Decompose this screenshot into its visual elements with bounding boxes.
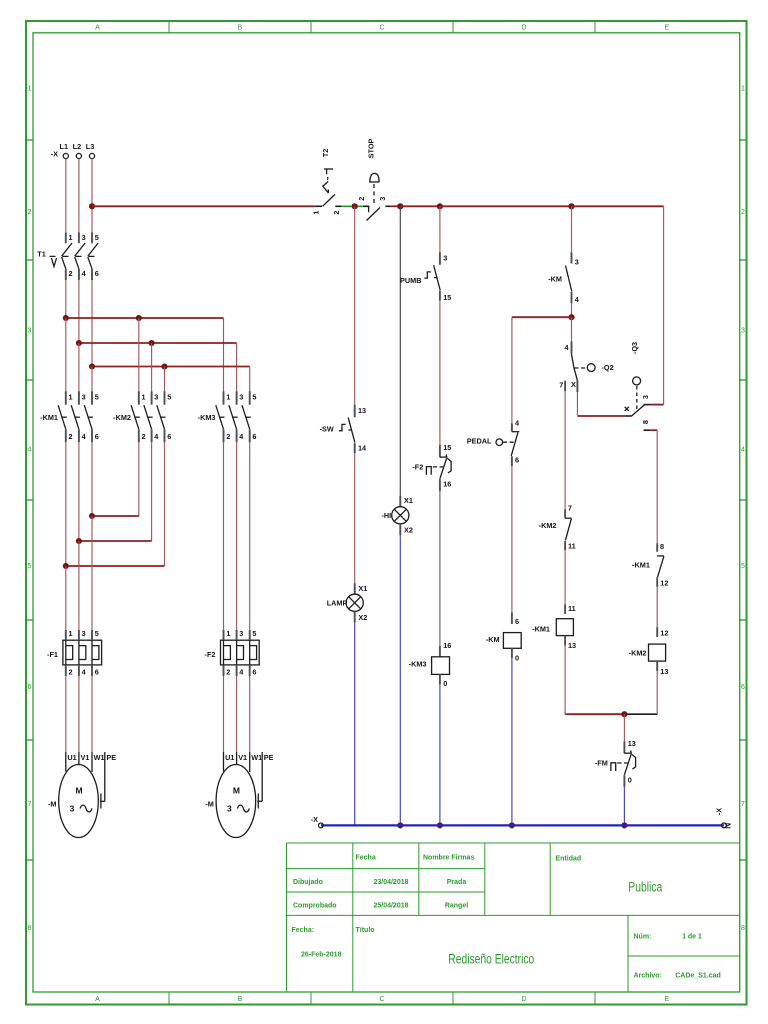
svg-text:1 de 1: 1 de 1 xyxy=(682,934,702,941)
circuit breaker T1 xyxy=(37,233,99,281)
svg-text:4: 4 xyxy=(239,667,244,676)
wire junction C to D xyxy=(440,205,572,207)
wire KM2 out 2 xyxy=(151,442,153,541)
svg-text:3: 3 xyxy=(575,257,579,266)
svg-text:3: 3 xyxy=(82,629,86,638)
node -FM neutral tap xyxy=(621,822,627,828)
svg-text:5: 5 xyxy=(95,629,99,638)
svg-text:2: 2 xyxy=(69,432,73,441)
wire T1 to bus L3 xyxy=(91,280,93,367)
wire to F1 xyxy=(65,566,67,630)
wire neutral bus xyxy=(321,824,724,826)
svg-text:-M: -M xyxy=(205,800,214,809)
wire -SW to LAMP xyxy=(354,453,356,583)
svg-text:2: 2 xyxy=(357,197,366,201)
svg-text:PEDAL: PEDAL xyxy=(467,436,492,445)
svg-text:13: 13 xyxy=(628,739,636,748)
svg-text:E: E xyxy=(665,996,670,1003)
wire KM1 pole feeds xyxy=(65,318,67,391)
svg-text:0: 0 xyxy=(515,653,519,662)
svg-text:5: 5 xyxy=(95,392,99,401)
svg-text:X2: X2 xyxy=(404,526,413,535)
pedal switch PEDAL xyxy=(467,418,520,466)
svg-text:Archivo:: Archivo: xyxy=(634,973,662,980)
wire -KM3 coil to neutral xyxy=(439,685,441,826)
contactor -KM1 main contacts xyxy=(40,391,99,442)
wire LAMP to neutral xyxy=(354,623,356,826)
svg-text:0: 0 xyxy=(443,679,447,688)
node -KM neutral tap xyxy=(509,822,515,828)
wire junction E down to -Q2 xyxy=(571,317,573,341)
pushbutton STOP xyxy=(357,139,390,221)
selector switch -Q3 xyxy=(625,342,651,430)
svg-text:7: 7 xyxy=(559,381,563,390)
svg-text:-M: -M xyxy=(48,800,57,809)
svg-text:14: 14 xyxy=(358,444,367,453)
svg-text:D: D xyxy=(521,25,526,32)
switch T2 xyxy=(312,149,342,215)
svg-text:6: 6 xyxy=(515,456,519,465)
wire bus phase2 xyxy=(79,342,237,344)
svg-text:12: 12 xyxy=(660,579,668,588)
svg-text:Núm:: Núm: xyxy=(634,934,652,941)
svg-text:U1: U1 xyxy=(67,753,76,762)
wire -FM to neutral xyxy=(623,787,625,825)
svg-text:3: 3 xyxy=(82,233,86,242)
svg-text:PE: PE xyxy=(106,753,116,762)
node bus1 taps xyxy=(63,315,69,321)
svg-text:11: 11 xyxy=(568,542,576,551)
node L3 junction xyxy=(89,203,95,209)
svg-text:7: 7 xyxy=(568,503,572,512)
overload relay -F1 xyxy=(47,629,102,677)
wire KM2 out 1 xyxy=(138,442,140,516)
svg-text:Rediseño Electrico: Rediseño Electrico xyxy=(448,952,534,967)
wire KM3 to F2 xyxy=(223,442,225,630)
svg-text:X1: X1 xyxy=(358,584,367,593)
svg-text:15: 15 xyxy=(443,443,451,452)
svg-text:L2: L2 xyxy=(73,142,82,151)
node -HI neutral tap xyxy=(397,822,403,828)
wire join to -FM xyxy=(623,714,625,741)
node -KM3 neutral tap xyxy=(437,822,443,828)
svg-text:4: 4 xyxy=(564,343,569,352)
svg-text:4: 4 xyxy=(154,432,159,441)
svg-text:Nombre Firmas: Nombre Firmas xyxy=(423,855,474,862)
svg-text:B: B xyxy=(238,25,243,32)
contactor -KM2 main contacts xyxy=(113,391,171,442)
node jumper c xyxy=(63,563,69,569)
svg-text:-KM2: -KM2 xyxy=(539,521,557,530)
wire jumper KM2-KM1 c xyxy=(66,565,165,567)
overload contact -F2 xyxy=(412,443,451,491)
svg-text:5: 5 xyxy=(741,563,745,570)
svg-text:2: 2 xyxy=(28,209,32,216)
svg-text:X: X xyxy=(571,380,576,389)
wire -Q3 pin3 to riser xyxy=(651,404,664,406)
svg-text:1: 1 xyxy=(226,629,230,638)
svg-text:V1: V1 xyxy=(81,753,90,762)
svg-text:5: 5 xyxy=(167,392,171,401)
svg-text:1: 1 xyxy=(69,629,73,638)
switch -SW xyxy=(320,405,367,454)
svg-text:X1: X1 xyxy=(404,496,413,505)
svg-text:A: A xyxy=(95,25,100,32)
svg-text:6: 6 xyxy=(167,432,171,441)
svg-text:Rangel: Rangel xyxy=(445,903,468,910)
svg-text:1: 1 xyxy=(28,86,32,93)
wire coil join left xyxy=(565,713,624,715)
svg-text:4: 4 xyxy=(741,447,745,454)
svg-text:-Q2: -Q2 xyxy=(602,363,614,372)
svg-text:3: 3 xyxy=(82,392,86,401)
wire F1 to motor1 xyxy=(65,676,67,752)
svg-text:Entidad: Entidad xyxy=(556,856,582,863)
svg-text:13: 13 xyxy=(660,667,668,676)
svg-text:C: C xyxy=(379,996,384,1003)
svg-text:3: 3 xyxy=(70,804,75,814)
svg-text:2: 2 xyxy=(69,667,73,676)
svg-text:Fecha:: Fecha: xyxy=(292,927,315,934)
lamp -HI xyxy=(381,496,412,535)
svg-text:4: 4 xyxy=(28,447,32,454)
wire L1 down xyxy=(65,159,67,233)
svg-text:6: 6 xyxy=(252,667,256,676)
svg-text:1: 1 xyxy=(69,233,73,242)
svg-text:3: 3 xyxy=(154,392,158,401)
svg-text:B: B xyxy=(238,996,243,1003)
svg-text:-FM: -FM xyxy=(595,759,608,768)
svg-text:3: 3 xyxy=(28,328,32,335)
svg-text:5: 5 xyxy=(28,563,32,570)
svg-text:3: 3 xyxy=(443,254,447,263)
wire main control feed xyxy=(92,205,315,207)
wire jumper KM2-KM1 a xyxy=(92,515,139,517)
svg-text:Título: Título xyxy=(356,927,375,934)
svg-text:L3: L3 xyxy=(86,142,95,151)
svg-text:2: 2 xyxy=(332,211,341,215)
wire junction B to C xyxy=(400,205,440,207)
wire junction D to right corner xyxy=(572,205,664,207)
node junction E xyxy=(568,314,574,320)
node junction C xyxy=(437,203,443,209)
svg-text:2: 2 xyxy=(741,209,745,216)
svg-text:A: A xyxy=(95,996,100,1003)
wire T1 to bus L2 xyxy=(78,280,80,343)
svg-text:-KM2: -KM2 xyxy=(113,413,131,422)
wire bus phase1 xyxy=(66,317,224,319)
wire bus phase1 drop to KM3 xyxy=(223,318,225,391)
svg-text:N: N xyxy=(723,823,733,829)
node bus2 taps xyxy=(76,340,82,346)
wire jumper KM2-KM1 b xyxy=(79,540,152,542)
svg-text:2: 2 xyxy=(69,269,73,278)
svg-text:-X: -X xyxy=(311,815,318,824)
svg-text:U1: U1 xyxy=(225,753,234,762)
svg-text:4: 4 xyxy=(82,667,87,676)
svg-text:-KM1: -KM1 xyxy=(632,561,650,570)
motor -M 1 xyxy=(48,752,116,838)
svg-text:-KM2: -KM2 xyxy=(629,648,647,657)
node jumper b xyxy=(76,538,82,544)
svg-text:1: 1 xyxy=(312,211,321,215)
svg-text:3: 3 xyxy=(641,395,650,399)
node jumper a xyxy=(89,513,95,519)
svg-text:-KM1: -KM1 xyxy=(40,413,58,422)
svg-text:2: 2 xyxy=(142,432,146,441)
svg-text:6: 6 xyxy=(252,432,256,441)
svg-text:3: 3 xyxy=(239,629,243,638)
svg-text:X2: X2 xyxy=(358,613,367,622)
wire -KM to junction E xyxy=(571,303,573,317)
svg-text:1: 1 xyxy=(226,392,230,401)
svg-text:6: 6 xyxy=(95,667,99,676)
svg-text:M: M xyxy=(233,786,240,796)
svg-text:8: 8 xyxy=(660,542,664,551)
svg-text:C: C xyxy=(379,25,384,32)
wire L2 down xyxy=(78,159,80,233)
svg-text:L1: L1 xyxy=(60,142,69,151)
svg-text:1: 1 xyxy=(142,392,146,401)
wire bus phase3 xyxy=(92,366,250,368)
svg-text:-F1: -F1 xyxy=(47,650,58,659)
svg-text:D: D xyxy=(521,996,526,1003)
svg-text:V1: V1 xyxy=(238,753,247,762)
svg-text:W1: W1 xyxy=(251,753,262,762)
svg-text:8: 8 xyxy=(28,925,32,932)
coil -KM xyxy=(486,613,521,663)
svg-text:13: 13 xyxy=(568,641,576,650)
svg-text:4: 4 xyxy=(239,432,244,441)
coil -KM2 xyxy=(629,627,669,676)
wire junction D down xyxy=(571,206,573,252)
svg-text:6: 6 xyxy=(515,617,519,626)
svg-text:3: 3 xyxy=(227,804,232,814)
svg-text:-KM1: -KM1 xyxy=(532,625,550,634)
title block xyxy=(287,843,740,992)
overload contact -FM xyxy=(595,739,636,787)
wire pin X to -Q3 xyxy=(576,392,578,415)
wire KM1 out 1 xyxy=(65,442,67,566)
svg-text:7: 7 xyxy=(28,801,32,808)
svg-text:12: 12 xyxy=(660,629,668,638)
svg-text:2: 2 xyxy=(226,432,230,441)
svg-text:8: 8 xyxy=(741,925,745,932)
node junction B xyxy=(397,203,403,209)
svg-text:4: 4 xyxy=(575,295,580,304)
contact -KM xyxy=(548,253,579,305)
svg-text:T1: T1 xyxy=(37,250,46,259)
wire -KM2 aux to -KM1 coil xyxy=(564,550,566,605)
svg-text:-KM: -KM xyxy=(486,635,500,644)
wire KM1 out 2 xyxy=(78,442,80,541)
svg-text:5: 5 xyxy=(252,629,256,638)
node coil join xyxy=(621,711,627,717)
svg-text:Dibujado: Dibujado xyxy=(293,879,323,886)
svg-text:3: 3 xyxy=(741,328,745,335)
svg-text:13: 13 xyxy=(358,406,366,415)
node junction D xyxy=(568,203,574,209)
svg-text:-KM: -KM xyxy=(548,275,562,284)
svg-text:-SW: -SW xyxy=(320,424,334,433)
wire KM1 out 3 xyxy=(91,442,93,516)
wire -KM1 coil down xyxy=(564,646,566,715)
wire STOP to junction B xyxy=(390,205,400,207)
svg-text:CADe_S1.cad: CADe_S1.cad xyxy=(675,973,721,980)
svg-text:-F2: -F2 xyxy=(412,463,423,472)
wire F2 to motor2 xyxy=(223,676,225,752)
svg-text:11: 11 xyxy=(568,604,576,613)
wire PUMB to -F2 contact xyxy=(439,301,441,445)
aux contact -KM2 xyxy=(539,503,576,550)
svg-text:7: 7 xyxy=(741,801,745,808)
svg-text:PUMB: PUMB xyxy=(400,276,422,285)
wire junction E to PEDAL branch xyxy=(512,316,572,318)
wire T1 to bus L1 xyxy=(65,280,67,318)
wire coil join right black xyxy=(624,713,657,715)
svg-text:-F2: -F2 xyxy=(205,650,216,659)
overload relay -F2 xyxy=(205,629,260,677)
svg-text:-KM3: -KM3 xyxy=(198,413,216,422)
svg-text:-X: -X xyxy=(51,150,58,159)
svg-text:Publica: Publica xyxy=(628,880,662,895)
svg-text:4: 4 xyxy=(82,432,87,441)
svg-text:T2: T2 xyxy=(321,149,330,158)
svg-text:5: 5 xyxy=(95,233,99,242)
svg-text:PE: PE xyxy=(264,753,274,762)
svg-text:5: 5 xyxy=(252,392,256,401)
node control junction A xyxy=(352,203,358,209)
wire bus phase2 drop to KM3 xyxy=(236,343,238,391)
wire T2 to STOP green net xyxy=(342,205,363,207)
svg-text:E: E xyxy=(665,25,670,32)
wire -KM2 coil down xyxy=(656,671,658,714)
svg-text:4: 4 xyxy=(515,418,520,427)
wire KM2 out 3 xyxy=(164,442,166,566)
svg-text:26-Feb-2018: 26-Feb-2018 xyxy=(301,952,342,959)
svg-text:23/04/2018: 23/04/2018 xyxy=(373,879,408,886)
svg-text:6: 6 xyxy=(95,432,99,441)
svg-text:M: M xyxy=(75,786,82,796)
svg-text:-X: -X xyxy=(714,808,723,815)
svg-text:6: 6 xyxy=(95,269,99,278)
wire junction B down to -HI xyxy=(399,206,401,495)
coil -KM3 xyxy=(409,641,452,688)
svg-text:3: 3 xyxy=(239,392,243,401)
contactor -KM3 main contacts xyxy=(198,391,257,442)
wire -KM coil to neutral xyxy=(511,658,513,825)
svg-text:6: 6 xyxy=(741,684,745,691)
wire PEDAL riser xyxy=(511,317,513,423)
svg-text:16: 16 xyxy=(443,479,451,488)
svg-text:Comprobado: Comprobado xyxy=(293,903,337,910)
svg-text:Fecha: Fecha xyxy=(356,855,376,862)
wire -KM1 aux to -KM2 coil xyxy=(656,587,658,628)
svg-text:STOP: STOP xyxy=(367,139,376,159)
svg-text:8: 8 xyxy=(641,420,650,424)
wire -F2 to -KM3 coil gray net xyxy=(439,491,441,646)
coil -KM1 xyxy=(532,604,576,650)
wire PEDAL to -KM coil xyxy=(511,466,513,612)
svg-text:16: 16 xyxy=(443,641,451,650)
wire -HI to neutral xyxy=(399,535,401,825)
switch PUMB xyxy=(400,252,451,302)
wire right riser xyxy=(663,206,665,404)
wire L3 down xyxy=(91,159,93,233)
svg-text:-HI: -HI xyxy=(381,511,391,520)
contact -Q2 xyxy=(559,342,613,393)
svg-text:W1: W1 xyxy=(94,753,105,762)
svg-text:1: 1 xyxy=(741,86,745,93)
wire KM2 pole feeds xyxy=(138,318,140,391)
svg-text:25/04/2018: 25/04/2018 xyxy=(373,903,408,910)
aux contact -KM1 xyxy=(632,542,668,588)
svg-text:-KM3: -KM3 xyxy=(409,659,427,668)
wire junction A down to -SW xyxy=(354,206,356,404)
svg-text:4: 4 xyxy=(82,269,87,278)
wire junction C down to PUMB xyxy=(439,206,441,252)
svg-text:LAMP: LAMP xyxy=(327,598,348,607)
svg-text:1: 1 xyxy=(69,392,73,401)
wire pin7 down to -KM2 aux xyxy=(564,391,566,509)
wire bus phase3 drop to KM3 xyxy=(249,367,251,392)
svg-text:0: 0 xyxy=(628,775,632,784)
svg-text:15: 15 xyxy=(443,293,451,302)
wire -Q3 pin8 down xyxy=(650,429,657,431)
node bus3 taps xyxy=(89,363,95,369)
svg-text:3: 3 xyxy=(378,197,387,201)
svg-text:-Q3: -Q3 xyxy=(630,342,639,354)
svg-text:2: 2 xyxy=(226,667,230,676)
lamp LAMP xyxy=(327,583,368,622)
svg-text:6: 6 xyxy=(28,684,32,691)
svg-text:Prada: Prada xyxy=(447,879,467,886)
motor -M 2 xyxy=(205,752,273,838)
